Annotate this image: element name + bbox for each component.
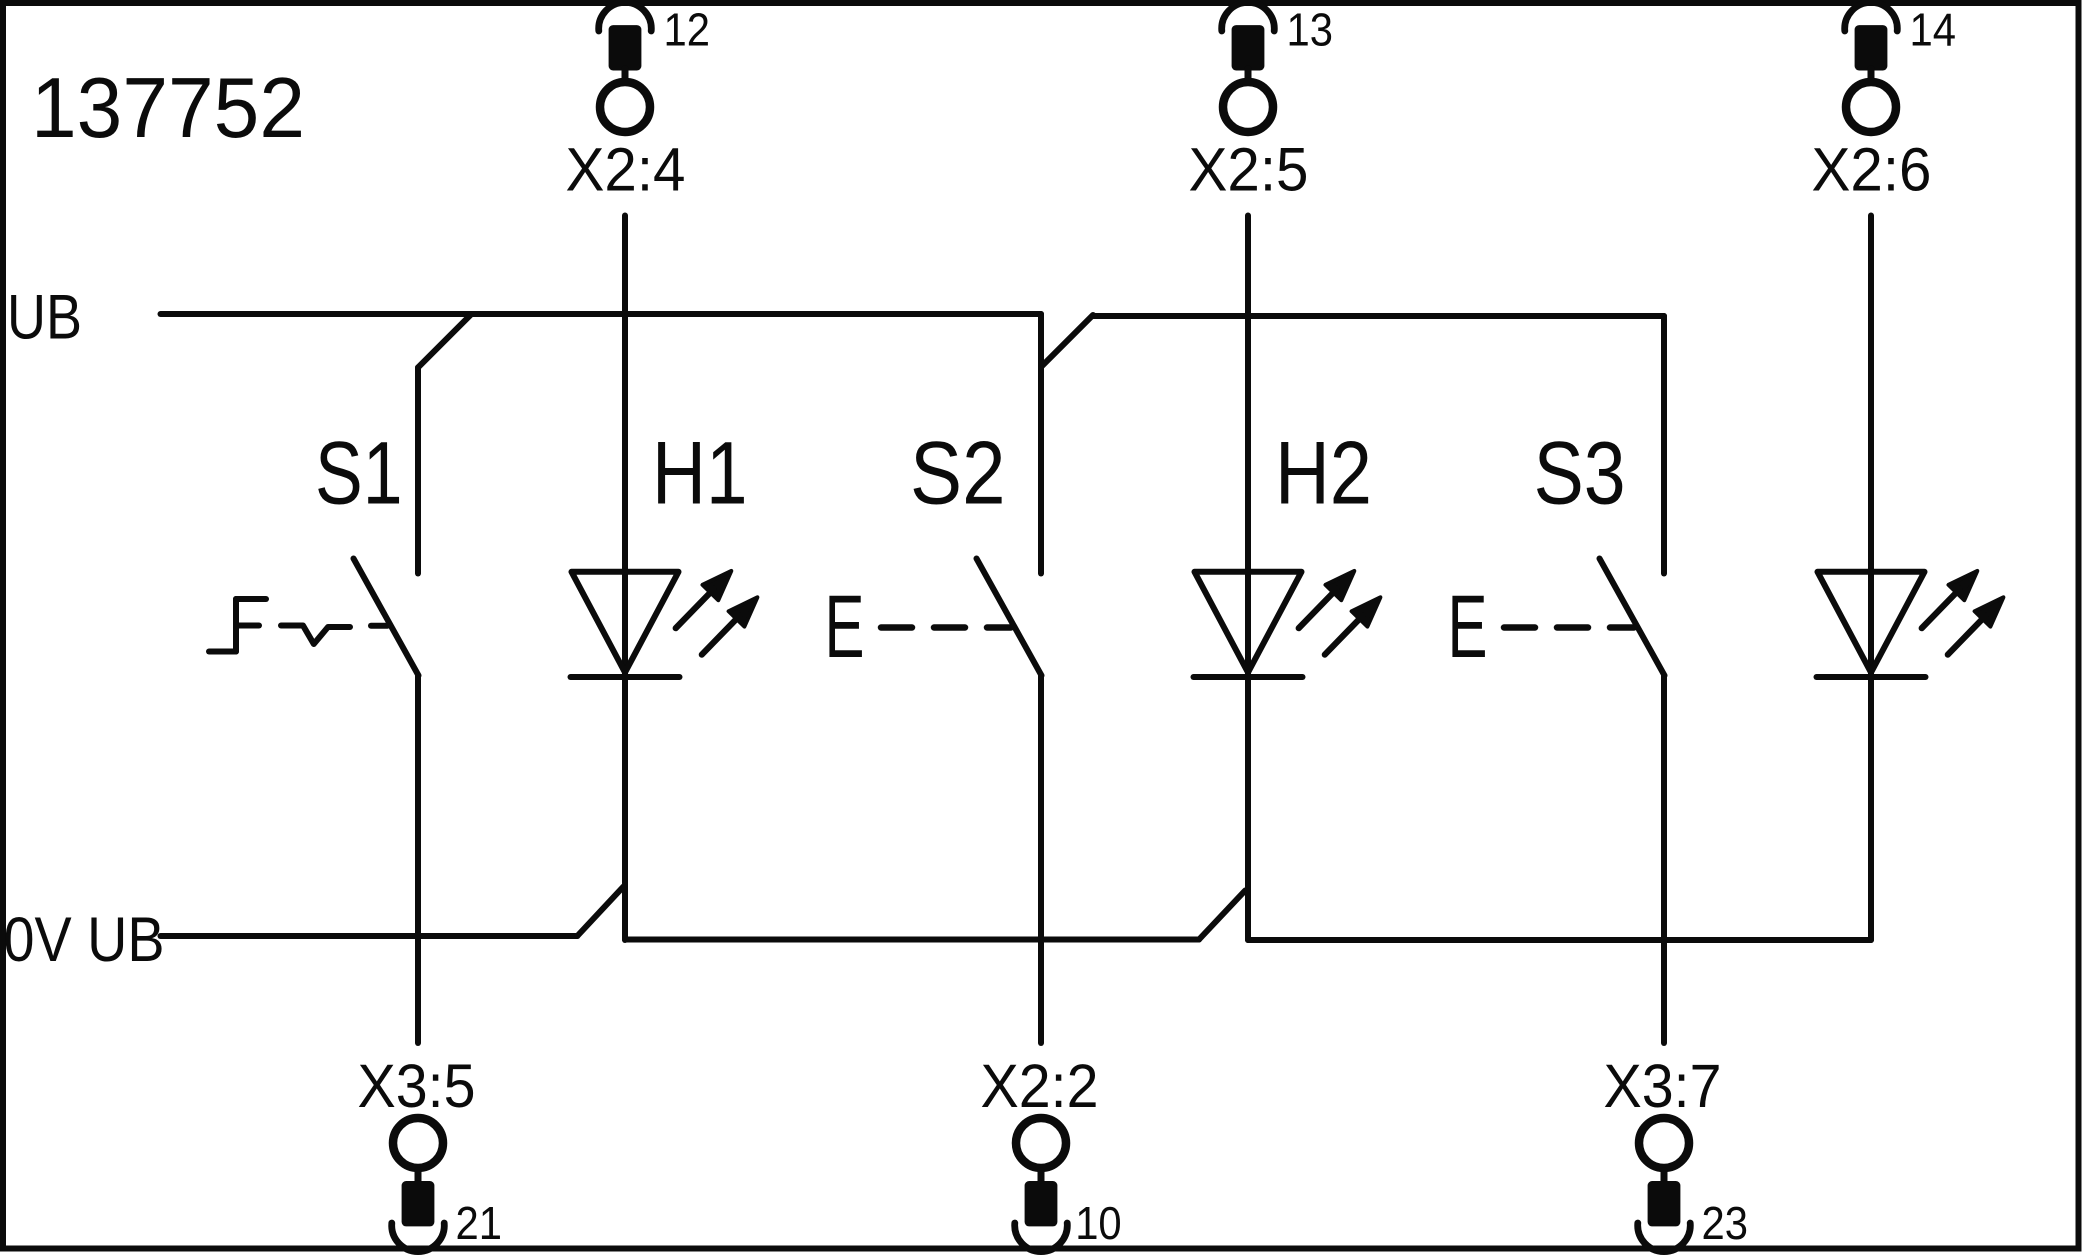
svg-text:12: 12 xyxy=(664,4,711,56)
svg-text:X3:5: X3:5 xyxy=(358,1052,476,1121)
svg-text:X2:4: X2:4 xyxy=(566,136,686,205)
svg-text:13: 13 xyxy=(1287,4,1334,56)
svg-text:H2: H2 xyxy=(1275,423,1372,523)
svg-text:23: 23 xyxy=(1702,1197,1749,1249)
svg-text:X2:6: X2:6 xyxy=(1812,136,1932,205)
svg-text:UB: UB xyxy=(7,283,82,353)
svg-text:S3: S3 xyxy=(1534,423,1626,523)
svg-text:21: 21 xyxy=(456,1197,503,1249)
svg-text:14: 14 xyxy=(1910,4,1957,56)
svg-text:X2:2: X2:2 xyxy=(981,1052,1099,1121)
svg-text:S2: S2 xyxy=(910,423,1006,523)
svg-text:X2:5: X2:5 xyxy=(1189,136,1309,205)
svg-text:10: 10 xyxy=(1075,1197,1122,1249)
svg-text:0V UB: 0V UB xyxy=(4,905,165,975)
svg-text:H1: H1 xyxy=(652,423,748,523)
svg-text:X3:7: X3:7 xyxy=(1604,1052,1722,1121)
svg-text:E: E xyxy=(1448,576,1488,676)
svg-text:E: E xyxy=(825,576,865,676)
svg-text:137752: 137752 xyxy=(31,61,305,156)
svg-text:S1: S1 xyxy=(315,423,403,523)
